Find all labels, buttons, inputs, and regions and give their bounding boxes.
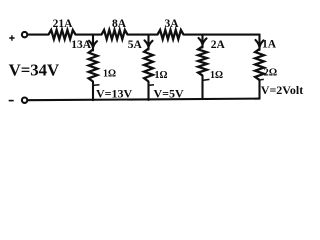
wire top-left from + terminal to R1 xyxy=(27,34,48,36)
wire branch4 stem below arrow (right edge) xyxy=(258,35,260,50)
current arrow 13A (branch 1) xyxy=(89,41,97,48)
wire branch3 lower segment xyxy=(201,76,203,100)
svg-text:V=34V: V=34V xyxy=(9,61,60,80)
wire branch2 stem below arrow xyxy=(147,35,149,50)
wire branch1 lower segment xyxy=(92,82,94,101)
node tick branch3 xyxy=(204,78,210,81)
node tick branch2 xyxy=(150,84,155,86)
svg-text:21A: 21A xyxy=(53,18,74,30)
wire branch4 lower segment xyxy=(258,80,260,99)
svg-text:1Ω: 1Ω xyxy=(210,70,223,81)
resistor 1ohm branch 2 xyxy=(144,49,153,82)
svg-text:13A: 13A xyxy=(71,39,92,51)
wire R3 to top-right corner node D xyxy=(184,34,260,36)
svg-text:3A: 3A xyxy=(164,18,179,30)
resistor 1ohm branch 1 xyxy=(89,50,98,82)
node tick branch4 xyxy=(261,78,264,80)
resistor R1 (series, carries 21A) xyxy=(49,30,76,39)
resistor 1ohm branch 3 xyxy=(198,47,207,76)
svg-text:1Ω: 1Ω xyxy=(103,69,116,80)
svg-text:V=13V: V=13V xyxy=(96,86,133,100)
plus sign of source xyxy=(9,35,14,40)
bottom wire (negative rail) xyxy=(28,99,260,101)
wire branch3 stem below arrow xyxy=(201,35,203,48)
svg-text:V=5V: V=5V xyxy=(154,86,185,100)
svg-text:2A: 2A xyxy=(211,39,226,51)
wire R1 to node A xyxy=(76,34,102,36)
minus sign of source xyxy=(9,100,14,102)
node tick branch1 xyxy=(94,84,100,86)
svg-text:2Ω: 2Ω xyxy=(264,68,278,79)
positive terminal (open circle) xyxy=(22,32,27,37)
wire branch2 lower segment xyxy=(147,82,149,101)
current arrow 1A (branch 4) xyxy=(256,40,264,47)
svg-text:1Ω: 1Ω xyxy=(155,70,168,81)
svg-text:1A: 1A xyxy=(262,38,277,50)
resistor 2ohm branch 4 xyxy=(255,49,264,80)
current arrow 5A (branch 2) xyxy=(145,40,153,47)
negative terminal (open circle) xyxy=(22,98,27,103)
svg-text:8A: 8A xyxy=(112,18,127,30)
current arrow 2A (branch 3) xyxy=(199,38,207,45)
wire R2 to node B xyxy=(128,34,158,36)
resistor R2 (series, carries 8A) xyxy=(102,30,128,39)
svg-text:5A: 5A xyxy=(128,39,143,51)
resistor R3 (series, carries 3A) xyxy=(158,30,184,39)
svg-text:V=2Volt: V=2Volt xyxy=(261,83,303,97)
wire branch1 stem below arrow xyxy=(92,35,94,51)
